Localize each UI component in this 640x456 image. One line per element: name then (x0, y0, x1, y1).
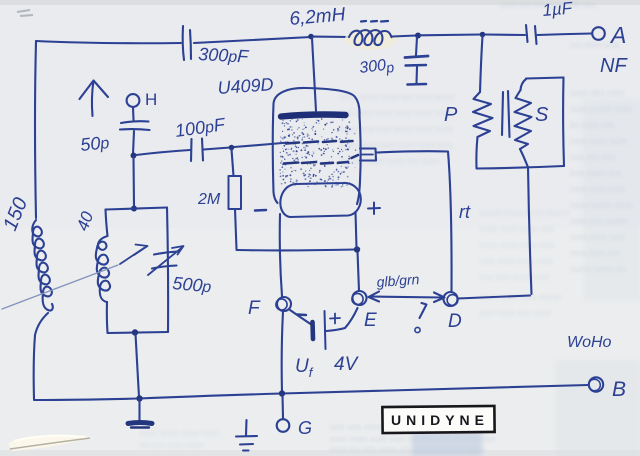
transformer S winding (515, 90, 532, 149)
tube grid row 2 dashes (284, 155, 358, 164)
transformer P lead bottom (476, 137, 477, 168)
antenna arrowhead (80, 81, 109, 100)
exclamation mark (415, 303, 427, 333)
wire grid junction into tube grid (234, 143, 288, 148)
glb/grn arrow line (370, 297, 442, 298)
wire bus junction to G (281, 395, 284, 418)
battery lead from F (290, 310, 311, 324)
label plus at tube (368, 203, 380, 215)
capacitor C 300p plates (405, 56, 428, 66)
svg-text:U409D: U409D (217, 74, 274, 98)
UNIDYNE box (382, 406, 494, 433)
resistor R 2M lead top (232, 149, 234, 176)
tube envelope (273, 88, 361, 204)
wire P junction to 1uF (485, 33, 525, 36)
node grid junction at 2M (229, 145, 235, 151)
wire 100pF to 2M junction (204, 148, 231, 150)
svg-text:mu nim numn nm: mu nim numn nm (480, 272, 550, 282)
tank box right edge (167, 208, 168, 333)
transformer P winding (473, 92, 493, 137)
tank box left lower stub (106, 302, 109, 333)
svg-text:300pF: 300pF (198, 44, 250, 67)
label minus at tube (255, 209, 266, 212)
transformer box top edge (526, 78, 564, 79)
tube filament right leg (356, 212, 357, 248)
tube envelope left bottom (274, 192, 278, 203)
wire bottom bus (34, 385, 588, 400)
wire left edge vertical (35, 41, 36, 218)
terminal A circle (592, 27, 605, 40)
svg-text:uns mim mnu mim: uns mim mnu mim (480, 256, 554, 266)
node tank top junction (131, 206, 137, 212)
wire H to 50p (132, 107, 135, 120)
wire 1uF to terminal A (538, 34, 592, 36)
inductor L 6,2mH coil (349, 30, 392, 45)
battery plus plate (325, 311, 326, 349)
wire F to bus (282, 312, 283, 393)
transformer S lead top (521, 79, 527, 90)
terminal H circle (127, 94, 140, 107)
svg-text:E: E (364, 310, 377, 331)
node P junction (480, 32, 486, 38)
tank box bottom edge (108, 332, 169, 333)
node tank bottom junction (132, 329, 138, 335)
wire 50p junction to 100pF (136, 150, 190, 155)
wire 2M bottom to cathode junction (237, 248, 356, 251)
capacitor C 300p lead bottom with bar (408, 67, 427, 85)
svg-text:im nm mim mim: im nm mim mim (140, 440, 204, 450)
ground earth symbol (236, 420, 257, 451)
wire 50p junction down to tank (132, 157, 135, 206)
wire anode junction to coil (313, 36, 349, 39)
terminal E circle (352, 291, 367, 305)
label plus at battery (330, 314, 340, 324)
capacitor C 500p variable plates (152, 252, 179, 269)
svg-text:inm mnu inm wmn mnu mnu: inm mnu inm wmn mnu mnu (340, 124, 453, 134)
transformer box right edge (562, 78, 565, 167)
wire D to transformer (458, 296, 531, 299)
svg-text:NF: NF (600, 55, 628, 77)
transformer P lead top (480, 36, 483, 92)
glb/grn arrowhead right (434, 293, 445, 303)
svg-text:1µF: 1µF (542, 0, 575, 20)
terminal B circle (589, 377, 604, 391)
transformer bottom rail (477, 166, 565, 169)
tank box top edge (106, 208, 168, 210)
node anode junction (308, 34, 314, 40)
svg-text:UNIDYNE: UNIDYNE (391, 412, 489, 428)
paper scratch bottom left (8, 435, 92, 451)
svg-text:S: S (535, 104, 549, 126)
inductor L1 150 antenna coil (32, 220, 53, 311)
wire E up to cathode junction (358, 251, 360, 291)
ground chassis bar (128, 423, 152, 424)
wire top bus from 300pF to anode junction (194, 37, 311, 43)
tube anode lead (312, 38, 316, 111)
svg-text:mnn mnu mim nim: mnn mnu mim nim (480, 240, 554, 250)
svg-text:H: H (145, 90, 157, 109)
terminal F circle (276, 297, 291, 311)
capacitor C 300pF (top left, plates) (183, 26, 191, 60)
node 300p junction (415, 33, 421, 39)
wire 50p to grid node (133, 131, 134, 154)
svg-text:50p: 50p (79, 132, 110, 155)
glb/grn arrowhead left (369, 292, 380, 302)
tuning arrow long diagonal (2, 265, 118, 309)
node cathode junction (354, 246, 360, 252)
label minus at F (297, 313, 306, 316)
svg-text:glb/grn: glb/grn (376, 271, 420, 290)
battery minus plate (310, 322, 315, 339)
wire transformer S lead down (528, 167, 532, 294)
tube grid cap square (360, 149, 376, 161)
tube filament left leg to F (280, 214, 282, 296)
svg-text:nnm nim mim: nnm nim mim (570, 88, 624, 98)
tube anode plate bar (281, 115, 346, 117)
tube stipple dots (279, 118, 356, 188)
svg-text:G: G (298, 418, 312, 438)
dashes after 6,2mH (361, 20, 388, 23)
transformer core bars (502, 91, 510, 137)
svg-text:2M: 2M (197, 191, 221, 208)
capacitor C 1uF plates (526, 25, 537, 44)
svg-text:numn mnu wmn numn: numn mnu wmn numn (480, 208, 569, 218)
svg-text:inm wmn mim num nnm nim: inm wmn mim num nnm nim (340, 140, 453, 150)
tube grid row 1 dashes (286, 141, 353, 144)
tuning arrowhead (134, 245, 148, 256)
wire top bus left segment (36, 41, 181, 43)
svg-text:F: F (248, 298, 261, 319)
tube cathode oval (280, 183, 360, 217)
svg-text:4V: 4V (334, 354, 360, 375)
node 50p junction (131, 153, 137, 159)
battery lead to E (327, 308, 358, 331)
svg-text:nm mnn mnn sum num mim: nm mnn mnn sum num mim (340, 108, 452, 118)
terminal D circle (444, 292, 458, 306)
capacitor C 50p plates (120, 121, 150, 130)
resistor R 2M body (229, 176, 242, 209)
inductor L 6,2mH halo (345, 28, 397, 50)
svg-text:rt: rt (459, 202, 471, 222)
wire bus junction to chassis bar (138, 400, 140, 421)
node bus junction left (136, 395, 142, 401)
svg-text:mnn sum mnu uns: mnn sum mnu uns (480, 224, 555, 234)
terminal G circle (277, 419, 290, 432)
capacitor C 100pF plates (191, 139, 203, 162)
capacitor C 300p lead top (416, 37, 417, 55)
capacitor 500p arrow (148, 248, 182, 276)
resistor R 2M lead bottom (235, 209, 237, 249)
inductor L2 40 coil (96, 236, 110, 302)
wire grid cap to D (rt wire) (377, 151, 452, 291)
tank box left upper stub (106, 210, 108, 237)
wire tank bottom to bus (136, 334, 140, 397)
wire 150 coil bottom lead to bottom bus (34, 313, 48, 399)
svg-text:WoHo: WoHo (567, 334, 612, 351)
antenna arrow stem (92, 81, 94, 116)
svg-text:A: A (609, 22, 626, 48)
svg-text:B: B (612, 378, 626, 401)
svg-text:D: D (448, 311, 462, 332)
wire 300p junction to P junction (420, 33, 481, 36)
svg-text:inm nnm inm mnn: inm nnm inm mnn (480, 308, 552, 318)
wire coil to 300p junction (392, 36, 416, 37)
svg-text:P: P (444, 104, 458, 126)
transformer S winding bottom hook (520, 149, 528, 166)
svg-text:mnu wmn mnu mnn: mnu wmn mnu mnn (140, 428, 219, 438)
node bus junction F (279, 390, 285, 396)
